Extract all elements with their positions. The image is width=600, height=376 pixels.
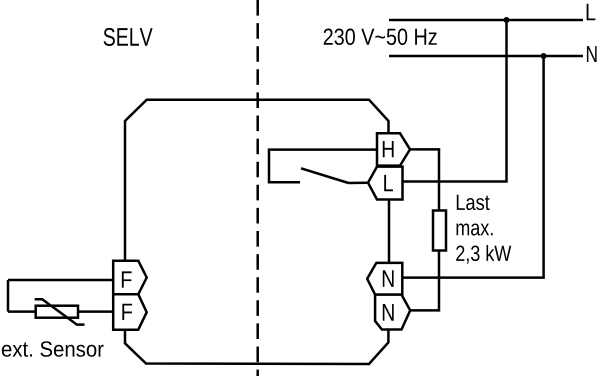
terminal N1 letter	[383, 270, 394, 287]
terminal F1 body	[113, 261, 147, 295]
label ext. Sensor	[2, 341, 104, 357]
thermostat body outline upper part (top edge, chamfered corners, down to terminal F1 and terminal H)	[125, 100, 389, 261]
wire L supply line	[389, 19, 583, 22]
node junction dot on N line	[541, 53, 547, 59]
dashed separator between SELV side and mains side	[256, 0, 259, 376]
label Last	[457, 195, 490, 210]
wire from terminal H point through load resistor to terminal N2 point	[409, 149, 439, 310]
label SELV	[104, 28, 153, 46]
sensor loop wire top (to terminal F1)	[8, 279, 113, 282]
label 2,3 kW	[456, 245, 511, 264]
label max.	[457, 223, 493, 235]
terminal L body	[368, 167, 403, 200]
thermistor diagonal strike	[35, 299, 85, 324]
label 230 V~50 Hz	[324, 29, 437, 45]
node junction dot on L line	[504, 17, 510, 23]
wire from L junction down to terminal L	[401, 20, 507, 182]
switch blade (open)	[301, 168, 349, 183]
terminal L letter	[384, 175, 393, 191]
wire from N junction down to terminal N1	[401, 56, 544, 278]
switch wire from terminal H left edge to fixed contact	[269, 150, 377, 183]
sensor loop wire bottom (to terminal F2)	[8, 310, 113, 313]
wire terminal L bottom to terminal N1 top	[388, 200, 391, 263]
terminal F1 letter	[122, 271, 132, 287]
terminal H body	[377, 133, 410, 165]
sensor loop wire left side	[7, 280, 10, 312]
terminal F2 letter	[122, 304, 132, 320]
label L	[587, 4, 596, 21]
terminal N2 letter	[383, 304, 394, 321]
wire switch blade to terminal L point	[349, 181, 369, 184]
label N	[587, 46, 597, 62]
terminal H letter	[383, 141, 394, 157]
terminal F2 body	[113, 294, 147, 329]
load resistor (Last)	[433, 211, 446, 251]
thermistor ext. sensor body	[36, 306, 78, 318]
wire N supply line	[389, 55, 583, 58]
thermostat body outline lower part (bottom edge, chamfered corners, from terminal F2 to terminal N2)	[125, 329, 388, 364]
terminal N1 body	[367, 263, 402, 295]
terminal N2 body	[375, 295, 410, 330]
